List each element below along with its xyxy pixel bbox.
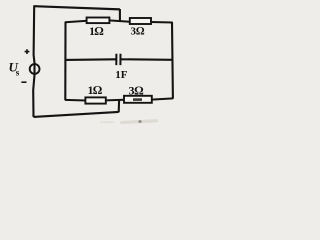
wire: inner left vertical (node A column)	[64, 22, 66, 100]
svg-text:1Ω: 1Ω	[88, 83, 102, 97]
wire: left outer vertical (source branch)	[33, 5, 34, 117]
wire: middle branch right (capacitor to node B)	[121, 58, 172, 61]
wire: stub down from top wire to node M junction	[119, 9, 121, 22]
label: source minus polarity	[21, 81, 26, 83]
wire: top branch right segment (R2 to node B)	[151, 21, 173, 24]
resistor R4 (bottom right, 3 ohm)	[124, 96, 152, 103]
label: source plus polarity	[25, 49, 30, 54]
resistor R2 (top right, 3 ohm)	[130, 18, 151, 24]
scan smudge bottom	[100, 119, 158, 124]
svg-text:1F: 1F	[115, 69, 128, 81]
wire: bottom branch right segment (R4 to node B)	[152, 98, 174, 99]
wire: middle branch left (node A to capacitor)	[65, 58, 116, 61]
svg-text:3Ω: 3Ω	[131, 26, 146, 38]
svg-text:3Ω: 3Ω	[129, 84, 144, 98]
wire: top outer (source + terminal to node M stub)	[34, 6, 120, 9]
svg-text:1Ω: 1Ω	[89, 24, 103, 38]
voltage source U_s (circle)	[30, 64, 40, 74]
wire: bottom branch left segment (node A to R3)	[65, 99, 86, 102]
resistor R3 (bottom left, 1 ohm)	[85, 97, 105, 103]
wire: bottom branch middle segment (R3 to R4 through node N)	[106, 99, 125, 102]
wire: bottom outer (source - terminal to node N stub)	[34, 112, 119, 117]
capacitor C1 plates	[116, 54, 120, 65]
svg-text:s: s	[16, 68, 20, 78]
wire: stub up from bottom wire to node N junction	[118, 100, 121, 113]
wire: top branch middle segment (R1 to R2 through node M)	[109, 20, 131, 21]
label: source name U_s	[9, 60, 20, 78]
wire: right vertical (node B column)	[171, 22, 174, 99]
wire: top branch left segment (node A to R1)	[65, 21, 88, 23]
resistor R1 (top left, 1 ohm)	[87, 18, 110, 24]
